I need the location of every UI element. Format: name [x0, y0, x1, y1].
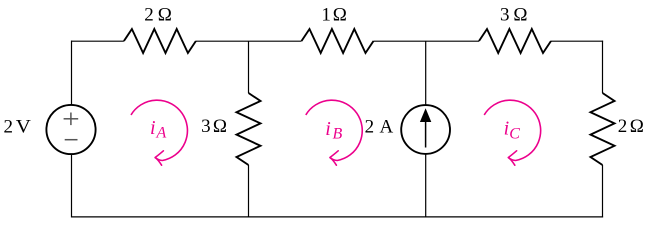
- wire top segment between R1 and R2: [196, 40, 302, 42]
- svg-text:iC: iC: [504, 117, 521, 142]
- voltage source minus sign: [65, 139, 78, 141]
- wire left above voltage source: [71, 41, 73, 105]
- wire right below R5: [602, 165, 604, 218]
- wire bottom: [71, 216, 603, 218]
- resistor 3ohm top-right zigzag: [479, 29, 551, 53]
- wire top segment between R2 and R3: [374, 40, 480, 42]
- current source arrow head: [420, 108, 431, 122]
- wire middle-left below R4: [248, 165, 250, 217]
- wire middle above current source: [425, 41, 427, 105]
- mesh current loop iA arrowhead: [155, 151, 163, 165]
- wire top-left segment: [71, 40, 124, 42]
- wire left below voltage source: [71, 154, 73, 217]
- svg-text:2Ω: 2Ω: [144, 5, 172, 26]
- wire right above R5: [602, 41, 604, 93]
- voltage source V1 circle: [46, 105, 95, 154]
- resistor 1ohm top-middle zigzag: [302, 29, 374, 53]
- svg-text:V: V: [16, 116, 32, 137]
- mesh current loop iB arc: [306, 100, 362, 160]
- voltage source plus sign: [64, 113, 79, 126]
- wire top-right segment: [551, 40, 603, 42]
- svg-text:1Ω: 1Ω: [321, 5, 346, 26]
- svg-text:2: 2: [4, 116, 14, 137]
- svg-text:iA: iA: [150, 117, 167, 141]
- wire middle below current source: [425, 154, 427, 217]
- current source I1 circle: [401, 105, 450, 154]
- resistor 2ohm top-left zigzag: [124, 29, 196, 53]
- svg-text:3Ω: 3Ω: [500, 5, 528, 26]
- resistor 2ohm vertical right zigzag: [591, 93, 615, 165]
- mesh current loop iC arc: [484, 100, 540, 160]
- mesh current loop iB arrowhead: [330, 151, 338, 165]
- wire middle-left above R4: [248, 41, 250, 93]
- current source arrow shaft: [425, 120, 427, 148]
- svg-text:iB: iB: [325, 118, 342, 143]
- resistor 3ohm vertical middle zigzag: [237, 93, 261, 165]
- svg-text:2A: 2A: [365, 116, 394, 137]
- svg-text:2Ω: 2Ω: [618, 116, 644, 137]
- svg-text:3Ω: 3Ω: [201, 116, 227, 137]
- mesh current loop iC arrowhead: [508, 151, 516, 165]
- mesh current loop iA arc: [131, 100, 187, 160]
